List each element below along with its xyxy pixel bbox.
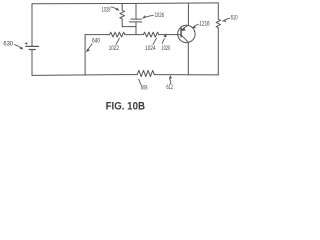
wire bottom rail right of resistor 608 <box>154 74 218 76</box>
svg-text:640: 640 <box>92 37 100 44</box>
transistor emitter diagonal and lead to top rail <box>182 3 189 30</box>
wire jog from resistor 1028 to capacitor node <box>122 26 136 28</box>
svg-text:610: 610 <box>231 14 238 21</box>
transistor collector diagonal and lead to bottom rail <box>181 35 188 75</box>
svg-text:1026: 1026 <box>155 12 165 19</box>
svg-text:1216: 1216 <box>199 20 210 27</box>
label 608 leader tick <box>139 79 142 85</box>
label 1028 leader arrow <box>111 7 120 11</box>
wire bottom rail left of resistor 608 <box>32 74 137 77</box>
label 1026 leader arrow <box>142 15 154 19</box>
label 610 leader arrow <box>222 18 230 22</box>
label 1216 leader arrow <box>191 24 199 28</box>
transistor base bar <box>180 28 182 36</box>
svg-text:1024: 1024 <box>145 45 156 52</box>
resistor 1022 <box>110 32 126 37</box>
label 640 leader arrow <box>86 44 92 53</box>
svg-text:612: 612 <box>166 84 173 91</box>
svg-text:FIG. 10B: FIG. 10B <box>106 100 145 112</box>
label 1024 leader tick <box>153 38 157 45</box>
battery plus sign <box>25 42 27 44</box>
svg-text:608: 608 <box>141 85 148 92</box>
resistor 608 <box>137 70 154 76</box>
battery 630 <box>26 46 39 49</box>
resistor 1028 <box>120 4 125 27</box>
wire 640 branch vertical <box>84 35 86 75</box>
wire left branch upper <box>31 4 33 47</box>
resistor 610 <box>216 3 220 75</box>
wire left branch lower <box>31 50 33 76</box>
wire middle row left <box>85 34 109 36</box>
svg-text:1020: 1020 <box>161 45 170 52</box>
svg-text:630: 630 <box>3 40 13 47</box>
transistor emitter arrowhead <box>182 27 186 31</box>
transistor Q 1216 body <box>178 25 195 42</box>
label 630 leader arrow <box>14 45 23 50</box>
svg-text:1022: 1022 <box>109 45 120 52</box>
wire top rail <box>32 2 218 5</box>
wire middle row right to transistor base <box>159 34 181 36</box>
svg-text:1028: 1028 <box>102 6 111 13</box>
label 1020 leader arrow <box>162 33 167 44</box>
capacitor 1026 <box>130 3 142 34</box>
label 1022 leader tick <box>116 38 120 45</box>
wire middle row center <box>125 34 143 36</box>
label 612 leader arrow <box>169 75 172 84</box>
resistor 1024 <box>143 32 158 37</box>
